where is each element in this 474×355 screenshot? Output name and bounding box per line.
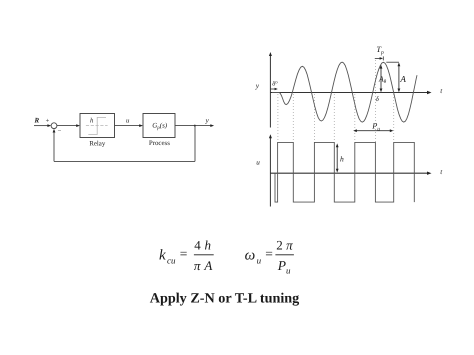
svg-text:Relay: Relay xyxy=(89,140,105,147)
svg-text:πA: πA xyxy=(194,258,213,273)
wire u: relay to process xyxy=(115,125,141,127)
svg-text:t: t xyxy=(440,87,443,95)
formula omega_u = 2 pi / P_u xyxy=(245,237,294,275)
svg-text:h: h xyxy=(90,117,94,124)
y axis (vertical, arrows both ends) xyxy=(269,55,271,128)
A measurement arrow xyxy=(398,65,400,91)
feedback wire up to summing junction xyxy=(53,131,55,161)
svg-text:R: R xyxy=(34,117,40,125)
formula k_cu = 4h / (pi A) xyxy=(159,237,214,272)
svg-text:=: = xyxy=(265,246,273,261)
leader line from peak to A arrow xyxy=(386,61,399,63)
u axis (vertical) xyxy=(269,138,271,207)
Pu measurement arrow xyxy=(355,130,391,132)
svg-text:u: u xyxy=(257,255,262,265)
svg-text:t: t xyxy=(440,168,443,176)
svg-text:u: u xyxy=(126,117,130,124)
t axis lower xyxy=(270,172,429,174)
svg-text:y: y xyxy=(255,81,260,90)
svg-text:cu: cu xyxy=(167,255,176,265)
svg-text:A: A xyxy=(399,74,406,84)
svg-text:−: − xyxy=(58,128,62,135)
svg-text:4h: 4h xyxy=(194,237,211,252)
svg-text:Tp: Tp xyxy=(376,45,384,56)
A0 measurement arrow xyxy=(380,67,382,90)
feedback wire down from output xyxy=(194,126,196,162)
svg-text:u: u xyxy=(286,266,291,276)
svg-text:Apply Z-N or T-L tuning: Apply Z-N or T-L tuning xyxy=(150,291,300,307)
svg-text:δ: δ xyxy=(376,96,380,103)
t axis upper xyxy=(270,92,429,94)
wire y: process to output xyxy=(175,125,212,127)
junction node on output wire xyxy=(194,125,196,127)
svg-text:=: = xyxy=(180,246,188,261)
dotted switching-time lines xyxy=(278,60,394,142)
wire summing junction to relay xyxy=(57,125,78,127)
svg-text:ω: ω xyxy=(245,248,256,264)
svg-text:P: P xyxy=(277,258,286,273)
svg-text:2π: 2π xyxy=(276,237,293,252)
svg-text:y: y xyxy=(205,117,210,125)
svg-text:h: h xyxy=(340,154,344,163)
wire R to summing junction xyxy=(34,125,49,127)
summing junction circle xyxy=(51,123,57,129)
svg-text:Process: Process xyxy=(149,140,170,147)
relay hysteresis symbol xyxy=(86,117,108,134)
relay output square wave xyxy=(275,142,414,202)
Tp arrow xyxy=(375,57,381,59)
svg-text:δo: δo xyxy=(272,79,278,87)
feedback wire bottom xyxy=(54,160,195,162)
process block xyxy=(143,114,175,138)
small arrow under delta-degree xyxy=(271,88,276,90)
svg-text:Aθ: Aθ xyxy=(378,74,387,85)
h measurement arrow xyxy=(336,146,338,171)
relay block xyxy=(80,114,115,138)
svg-text:u: u xyxy=(256,159,260,167)
process output oscillation curve xyxy=(272,62,417,122)
svg-text:k: k xyxy=(159,248,166,264)
svg-text:+: + xyxy=(46,117,50,124)
